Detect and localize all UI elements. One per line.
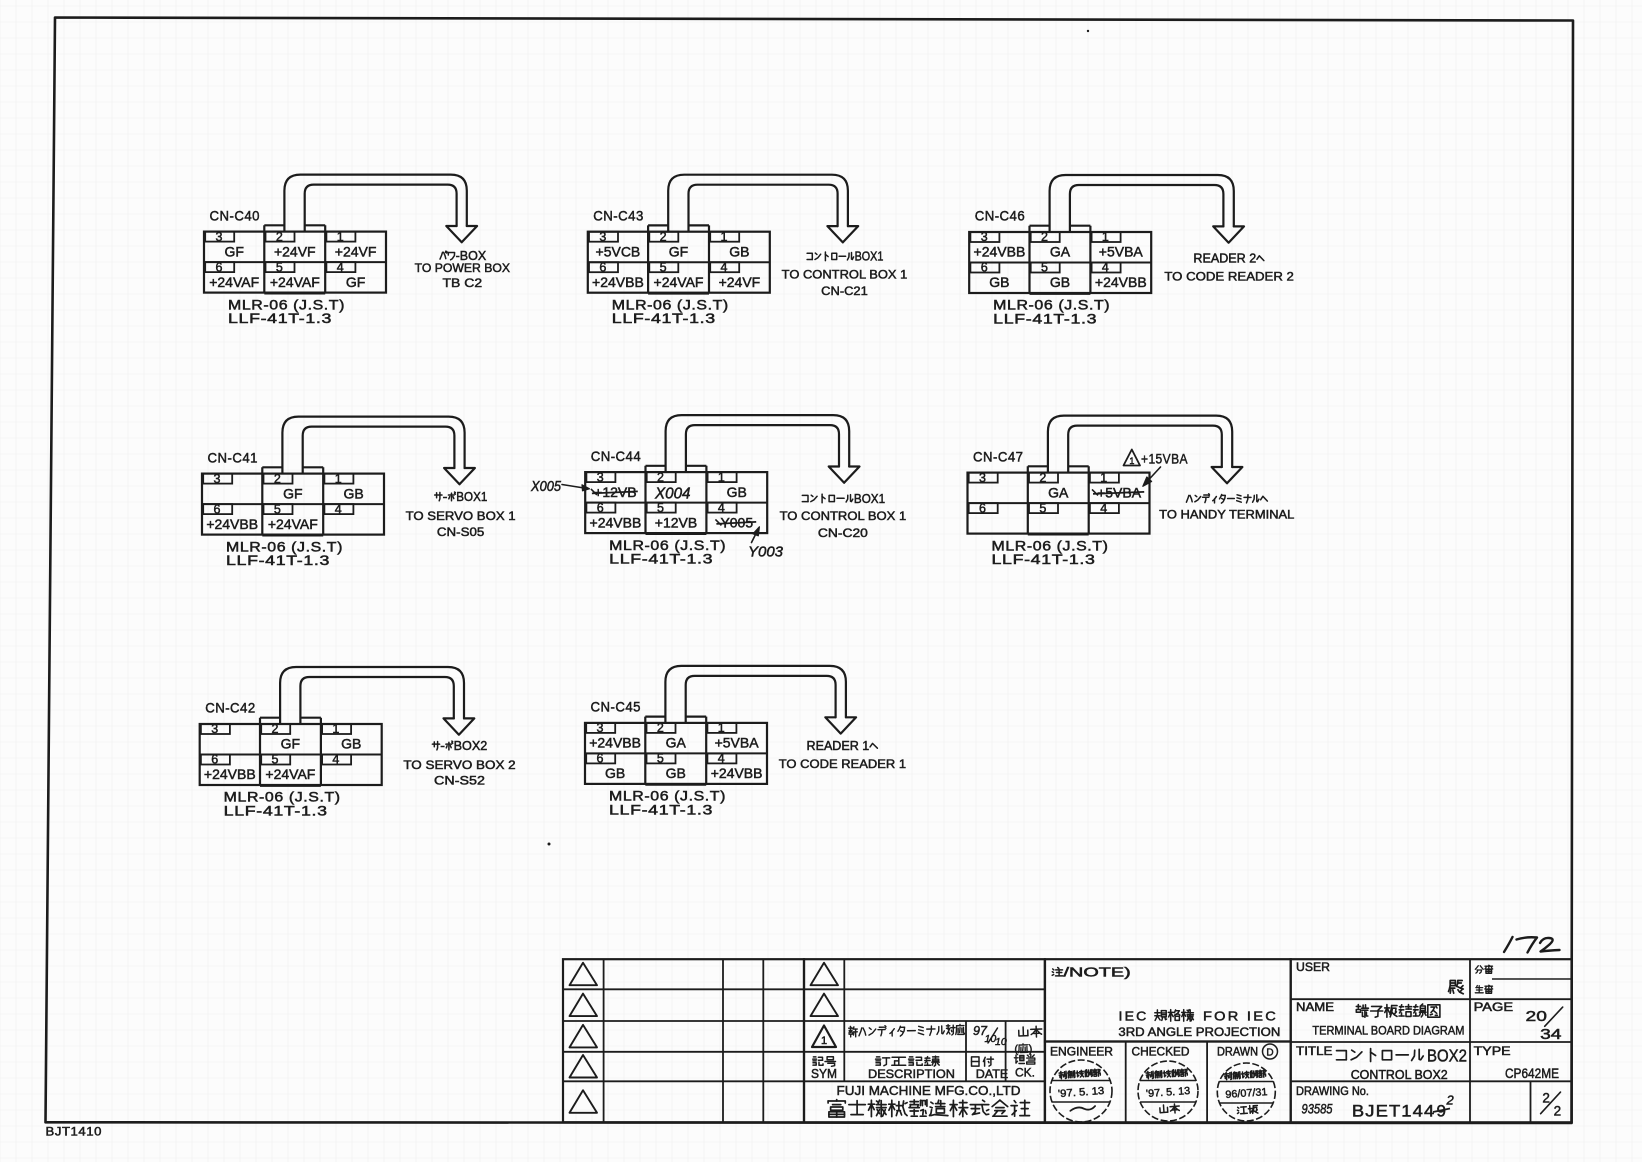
svg-text:LLF-41T-1.3: LLF-41T-1.3 <box>226 553 330 568</box>
wire cable band from CN-C44 to destination arrow <box>666 415 850 472</box>
svg-text:1: 1 <box>718 721 725 735</box>
svg-text:FOR IEC: FOR IEC <box>1203 1009 1278 1024</box>
pin 1 tab <box>324 474 353 484</box>
pin 1 tab <box>326 232 355 242</box>
svg-text:1: 1 <box>332 722 339 736</box>
pin 4 tab <box>708 503 737 513</box>
pin 6 tab <box>589 262 618 272</box>
pin 2 tab <box>266 232 295 242</box>
svg-text:BJT1410: BJT1410 <box>46 1127 103 1139</box>
svg-text:+5VBA: +5VBA <box>1099 244 1144 260</box>
svg-text:GB: GB <box>989 274 1009 290</box>
connector CN-C47 <box>968 416 1295 567</box>
svg-text:5: 5 <box>272 753 279 767</box>
svg-text:4: 4 <box>718 501 725 515</box>
svg-text:BOX1: BOX1 <box>456 490 487 504</box>
svg-text:CK.: CK. <box>1015 1066 1035 1080</box>
svg-text:BOX1: BOX1 <box>854 492 885 506</box>
svg-text:D: D <box>1266 1048 1273 1059</box>
svg-text:MLR-06 (J.S.T): MLR-06 (J.S.T) <box>993 298 1110 313</box>
pin 4 tab <box>322 755 351 765</box>
revision triangle symbol row 2 <box>570 994 598 1017</box>
svg-text:1: 1 <box>721 230 728 244</box>
svg-text:GF: GF <box>281 736 300 752</box>
svg-text:X004: X004 <box>654 486 691 503</box>
title block: revision record table (SYM/DESCRIPTION/DATE/CK) <box>804 959 1045 1122</box>
svg-text:CN-C40: CN-C40 <box>210 207 261 223</box>
svg-text:LLF-41T-1.3: LLF-41T-1.3 <box>993 312 1097 327</box>
svg-text:X005: X005 <box>530 479 562 495</box>
svg-text:3: 3 <box>216 230 223 244</box>
svg-text:GB: GB <box>605 765 625 781</box>
svg-text:1: 1 <box>1129 456 1134 466</box>
svg-text:LLF-41T-1.3: LLF-41T-1.3 <box>609 552 713 567</box>
DRAWN stamp 96/07/31 江坂 <box>1217 1063 1275 1121</box>
svg-text:TO CONTROL BOX 1: TO CONTROL BOX 1 <box>780 509 907 523</box>
svg-text:GB: GB <box>1050 274 1070 290</box>
pin 1 tab <box>710 232 739 242</box>
svg-text:CHECKED: CHECKED <box>1132 1047 1190 1059</box>
header 記号/SYM <box>813 1056 816 1058</box>
revision triangle symbol row 4 <box>570 1055 598 1078</box>
arrowhead pointing to destination <box>825 717 856 733</box>
company name 富士機械製造株式会社 <box>836 1100 838 1101</box>
svg-text:LLF-41T-1.3: LLF-41T-1.3 <box>992 552 1096 567</box>
handwritten page number 172 top right <box>1504 937 1513 952</box>
svg-text:GB: GB <box>343 485 363 501</box>
svg-text:2: 2 <box>1446 1093 1455 1108</box>
svg-text:6: 6 <box>599 260 606 274</box>
svg-text:NAME: NAME <box>1296 1002 1334 1014</box>
svg-text:CP642ME: CP642ME <box>1505 1066 1559 1081</box>
svg-text:3: 3 <box>979 471 986 485</box>
svg-text:34: 34 <box>1540 1027 1561 1043</box>
svg-text:+24VAF: +24VAF <box>270 274 320 290</box>
title block: approval row ENGINEER/CHECKED/DRAWN with stamps <box>1045 1042 1291 1123</box>
svg-text:-: - <box>440 739 445 753</box>
pin 3 tab <box>203 474 232 484</box>
pin 1 tab <box>707 723 736 733</box>
svg-text:2: 2 <box>657 721 664 735</box>
pin 3 tab <box>586 472 615 482</box>
svg-text:3: 3 <box>211 722 218 736</box>
pin 2 tab <box>1029 473 1058 483</box>
pin 3 tab <box>586 723 615 733</box>
svg-text:LLF-41T-1.3: LLF-41T-1.3 <box>609 802 713 817</box>
svg-text:5: 5 <box>1039 501 1046 515</box>
revision triangle symbol row 3 <box>570 1025 598 1048</box>
pin 1 tab <box>1090 473 1119 483</box>
pin 2 tab <box>649 232 678 242</box>
svg-text:2: 2 <box>660 230 667 244</box>
svg-text:CN-C45: CN-C45 <box>591 699 642 715</box>
svg-text:MLR-06 (J.S.T): MLR-06 (J.S.T) <box>609 538 726 553</box>
svg-text:GF: GF <box>283 485 302 501</box>
pin 6 tab <box>203 504 232 514</box>
wire cable band from CN-C43 to destination arrow <box>668 175 848 232</box>
svg-text:1: 1 <box>718 470 725 484</box>
svg-text:GB: GB <box>341 736 361 752</box>
arrowhead pointing to destination <box>444 718 475 734</box>
svg-text:TITLE: TITLE <box>1296 1046 1333 1058</box>
svg-text:2: 2 <box>274 472 281 486</box>
arrowhead pointing to destination <box>1213 226 1244 242</box>
svg-text:CN-C47: CN-C47 <box>973 448 1024 464</box>
pin 3 tab <box>205 232 234 242</box>
svg-text:+24VBB: +24VBB <box>590 514 642 530</box>
destination label for CN-C47 <box>1186 495 1189 502</box>
svg-text:DRAWN: DRAWN <box>1217 1047 1258 1059</box>
svg-text:5: 5 <box>657 501 664 515</box>
svg-text:6: 6 <box>979 501 986 515</box>
svg-text:5: 5 <box>660 260 667 274</box>
pin 6 tab <box>205 262 234 272</box>
pin 5 tab <box>1029 503 1058 513</box>
destination label for CN-C44 <box>802 495 808 501</box>
svg-text:+24VBB: +24VBB <box>974 244 1026 260</box>
handwritten annotation X004 in CN-C44 pin 2 cell <box>654 486 691 503</box>
svg-text:USER: USER <box>1296 962 1330 974</box>
pin 2 tab <box>264 474 293 484</box>
svg-text:6: 6 <box>597 752 604 766</box>
pin 5 tab <box>264 504 293 514</box>
svg-text:MLR-06 (J.S.T): MLR-06 (J.S.T) <box>609 789 726 804</box>
svg-text:TO CONTROL BOX 1: TO CONTROL BOX 1 <box>782 268 908 282</box>
svg-text:READER 2: READER 2 <box>1193 251 1256 265</box>
svg-text:4: 4 <box>332 753 339 767</box>
wire cable band from CN-C42 to destination arrow <box>280 667 464 724</box>
pin 4 tab <box>710 262 739 272</box>
connector CN-C42 <box>200 667 516 819</box>
svg-text:5: 5 <box>276 260 283 274</box>
svg-text:2: 2 <box>1554 1104 1562 1119</box>
svg-text:3: 3 <box>599 230 606 244</box>
wire cable band from CN-C46 to destination arrow <box>1050 175 1234 232</box>
revision triangle symbol (SYM column) row 2 <box>811 994 839 1017</box>
svg-text:+5VBA: +5VBA <box>715 735 760 751</box>
svg-text:6: 6 <box>597 501 604 515</box>
ENGINEER stamp 97.5.13 <box>1050 1060 1112 1122</box>
svg-text:TB C2: TB C2 <box>443 276 483 290</box>
title block: NOTE box <box>1045 959 1291 1041</box>
pin 6 tab <box>970 263 999 273</box>
pin 4 tab <box>707 753 736 763</box>
svg-text:PAGE: PAGE <box>1474 1002 1514 1014</box>
connector CN-C40 <box>204 175 510 327</box>
svg-text:MLR-06 (J.S.T): MLR-06 (J.S.T) <box>228 297 345 312</box>
svg-text:TO HANDY TERMINAL: TO HANDY TERMINAL <box>1159 508 1294 522</box>
connector CN-C43 <box>588 175 908 327</box>
connector CN-C41 <box>202 417 516 568</box>
pin 2 tab <box>1031 232 1060 242</box>
destination label for CN-C41 <box>435 494 442 496</box>
svg-text:+12VB: +12VB <box>655 514 697 530</box>
svg-text:GF: GF <box>346 274 365 290</box>
connector CN-C44 <box>585 415 906 566</box>
svg-text:1: 1 <box>337 230 344 244</box>
svg-text:2: 2 <box>1039 471 1046 485</box>
wire cable band from CN-C40 to destination arrow <box>284 175 466 232</box>
svg-text:CONTROL BOX2: CONTROL BOX2 <box>1351 1068 1448 1082</box>
svg-text:GB: GB <box>727 484 747 500</box>
分番 cell <box>1475 966 1478 970</box>
svg-text:GA: GA <box>1048 484 1069 500</box>
svg-text:2: 2 <box>276 230 283 244</box>
svg-text:GB: GB <box>729 243 749 259</box>
svg-text:1: 1 <box>821 1035 827 1047</box>
svg-text:6: 6 <box>214 502 221 516</box>
pin 5 tab <box>647 753 676 763</box>
destination label for CN-C43 <box>807 253 812 259</box>
revision triangle symbol row 1 <box>570 963 598 985</box>
svg-text:+24VF: +24VF <box>719 274 761 290</box>
pin 6 tab <box>586 753 615 763</box>
svg-text:5: 5 <box>657 752 664 766</box>
svg-text:+24VBB: +24VBB <box>592 274 644 290</box>
svg-text:CN-C44: CN-C44 <box>591 448 642 464</box>
handwritten revision description 新ハンディターミナル対応 <box>849 1024 965 1037</box>
connector CN-C45 <box>585 666 906 818</box>
svg-text:4: 4 <box>721 260 728 274</box>
pin 5 tab <box>261 755 290 765</box>
svg-text:6: 6 <box>981 261 988 275</box>
svg-text:1: 1 <box>335 472 342 486</box>
handwritten annotation X005 with arrow to CN-C44 pin 3 <box>530 479 589 495</box>
生番 cell <box>1475 986 1478 988</box>
header 担当/CK. <box>1015 1055 1017 1063</box>
wire cable band from CN-C41 to destination arrow <box>282 417 464 474</box>
svg-text:ENGINEER: ENGINEER <box>1050 1047 1113 1059</box>
svg-text:DESCRIPTION: DESCRIPTION <box>868 1067 955 1081</box>
pin 3 tab <box>589 232 618 242</box>
pin 6 tab <box>969 503 998 513</box>
svg-text:BOX2: BOX2 <box>1427 1045 1467 1065</box>
revision triangle symbol row 5 <box>570 1090 598 1113</box>
svg-text:+24VAF: +24VAF <box>209 274 259 290</box>
svg-text:BOX1: BOX1 <box>855 250 884 264</box>
svg-text:1: 1 <box>1100 471 1107 485</box>
pin 1 tab <box>322 724 351 734</box>
svg-text:+24VBB: +24VBB <box>204 766 256 782</box>
connector CN-C46 <box>969 175 1294 327</box>
pin 4 tab <box>324 504 353 514</box>
svg-text:LLF-41T-1.3: LLF-41T-1.3 <box>612 311 716 326</box>
pin 2 tab <box>647 723 676 733</box>
title block: left revision strip table <box>563 959 804 1122</box>
arrowhead pointing to destination <box>444 468 475 484</box>
handwritten annotation Y003 with arrow to CN-C44 pin 4 <box>748 527 784 561</box>
svg-text:TO SERVO BOX 1: TO SERVO BOX 1 <box>406 509 516 523</box>
svg-text:+24VBB: +24VBB <box>1095 274 1147 290</box>
svg-text:1: 1 <box>1102 230 1109 244</box>
pin 1 tab <box>708 472 737 482</box>
pin 3 tab <box>201 724 230 734</box>
svg-text:MLR-06 (J.S.T): MLR-06 (J.S.T) <box>226 539 343 554</box>
svg-text:+24VBB: +24VBB <box>711 765 763 781</box>
svg-text:4: 4 <box>1100 501 1107 515</box>
svg-text:TO SERVO BOX 2: TO SERVO BOX 2 <box>403 758 515 772</box>
svg-text:DRAWING No.: DRAWING No. <box>1296 1086 1369 1098</box>
pin 4 tab <box>1090 503 1119 513</box>
pin 2 tab <box>647 472 676 482</box>
svg-text:93585: 93585 <box>1302 1102 1333 1117</box>
pin 6 tab <box>201 755 230 765</box>
svg-text:-: - <box>443 490 448 504</box>
svg-text:CN-C20: CN-C20 <box>818 526 868 540</box>
pin 5 tab <box>266 262 295 272</box>
svg-text:IEC: IEC <box>1119 1009 1149 1024</box>
handwritten revision CK 山本(応) <box>1014 1026 1043 1056</box>
arrowhead pointing to destination <box>446 226 477 242</box>
svg-text:4: 4 <box>337 260 344 274</box>
svg-text:4: 4 <box>718 752 725 766</box>
revision triangle 1 and +15VBA annotation with arrow to CN-C47 pin 1 <box>1124 450 1189 487</box>
svg-text:+24VBB: +24VBB <box>589 735 641 751</box>
header 日付/DATE <box>972 1057 980 1066</box>
svg-text:3: 3 <box>597 721 604 735</box>
svg-text:CN-C21: CN-C21 <box>821 284 868 298</box>
svg-text:CN-C46: CN-C46 <box>975 208 1025 224</box>
svg-text:GF: GF <box>224 243 243 259</box>
svg-text:5: 5 <box>274 502 281 516</box>
arrowhead pointing to destination <box>829 467 860 483</box>
svg-text:SYM: SYM <box>811 1067 837 1081</box>
title block: right info column <box>1291 959 1572 1122</box>
svg-text:/NOTE): /NOTE) <box>1064 966 1131 980</box>
svg-text:CN-C43: CN-C43 <box>593 207 644 223</box>
pin 5 tab <box>649 262 678 272</box>
pin 4 tab <box>1092 263 1121 273</box>
svg-text:Y003: Y003 <box>748 544 784 561</box>
svg-text:3: 3 <box>214 472 221 486</box>
svg-text:4: 4 <box>335 502 342 516</box>
svg-text:5: 5 <box>1041 261 1048 275</box>
svg-text:DATE: DATE <box>976 1067 1009 1081</box>
svg-text:+5VCB: +5VCB <box>596 243 641 259</box>
svg-text:LLF-41T-1.3: LLF-41T-1.3 <box>224 804 328 819</box>
revision triangle 1 (SYM column) <box>812 1026 836 1048</box>
svg-text:+24VAF: +24VAF <box>268 516 318 532</box>
svg-text:BOX2: BOX2 <box>454 739 488 753</box>
svg-text:+15VBA: +15VBA <box>1141 451 1188 467</box>
wire cable band from CN-C45 to destination arrow <box>665 666 846 723</box>
CHECKED stamp 97.5.13 山本 <box>1138 1061 1198 1121</box>
svg-text:2: 2 <box>272 722 279 736</box>
svg-text:LLF-41T-1.3: LLF-41T-1.3 <box>228 311 332 326</box>
svg-text:6: 6 <box>216 260 223 274</box>
svg-text:MLR-06 (J.S.T): MLR-06 (J.S.T) <box>224 790 341 805</box>
svg-text:3: 3 <box>981 230 988 244</box>
svg-text:+24VF: +24VF <box>335 243 377 259</box>
svg-text:GA: GA <box>1050 244 1071 260</box>
destination label for CN-C42 <box>432 743 439 745</box>
svg-text:TO CODE READER 2: TO CODE READER 2 <box>1164 270 1294 284</box>
svg-text:+24VAF: +24VAF <box>654 274 704 290</box>
pin 5 tab <box>647 503 676 513</box>
pin 4 tab <box>326 262 355 272</box>
svg-text:2: 2 <box>1041 230 1048 244</box>
svg-text:2: 2 <box>657 470 664 484</box>
pin 2 tab <box>261 724 290 734</box>
pin 1 tab <box>1092 232 1121 242</box>
svg-text:CN-C42: CN-C42 <box>205 700 256 716</box>
pin 5 tab <box>1031 263 1060 273</box>
svg-text:BJET144: BJET144 <box>1352 1102 1435 1121</box>
wire cable band from CN-C47 to destination arrow <box>1048 416 1232 473</box>
svg-text:3RD ANGLE PROJECTION: 3RD ANGLE PROJECTION <box>1118 1025 1280 1039</box>
arrowhead pointing to destination <box>1212 467 1243 483</box>
header 訂正記録/DESCRIPTION <box>877 1056 880 1058</box>
svg-text:): ) <box>1028 1043 1032 1055</box>
svg-text:READER 1: READER 1 <box>807 739 870 753</box>
svg-text:GA: GA <box>666 735 687 751</box>
svg-text:20: 20 <box>1526 1009 1547 1025</box>
svg-text:4: 4 <box>1102 261 1109 275</box>
svg-text:+24VF: +24VF <box>274 243 316 259</box>
svg-text:GF: GF <box>669 243 688 259</box>
svg-text:TO CODE READER 1: TO CODE READER 1 <box>779 757 906 771</box>
revision triangle symbol (SYM column) row 1 <box>811 963 839 985</box>
svg-text:+24VAF: +24VAF <box>265 766 315 782</box>
svg-text:TYPE: TYPE <box>1474 1046 1511 1058</box>
pin 6 tab <box>586 503 615 513</box>
svg-text:MLR-06 (J.S.T): MLR-06 (J.S.T) <box>992 538 1109 553</box>
svg-text:FUJI MACHINE MFG.CO.,LTD: FUJI MACHINE MFG.CO.,LTD <box>837 1083 1021 1098</box>
svg-text:MLR-06 (J.S.T): MLR-06 (J.S.T) <box>612 297 729 312</box>
svg-text:CN-S05: CN-S05 <box>437 525 485 539</box>
pin 3 tab <box>970 232 999 242</box>
arrowhead pointing to destination <box>827 226 858 242</box>
svg-text:2: 2 <box>1542 1091 1550 1106</box>
destination label for CN-C40 <box>440 252 443 259</box>
svg-text:10: 10 <box>995 1036 1007 1048</box>
svg-text:+24VBB: +24VBB <box>206 516 258 532</box>
svg-text:CN-C41: CN-C41 <box>208 449 259 465</box>
svg-text:3: 3 <box>597 470 604 484</box>
svg-text:TO POWER BOX: TO POWER BOX <box>415 261 510 275</box>
svg-text:TERMINAL BOARD DIAGRAM: TERMINAL BOARD DIAGRAM <box>1312 1023 1464 1037</box>
svg-text:6: 6 <box>211 753 218 767</box>
svg-text:GB: GB <box>666 765 686 781</box>
pin 3 tab <box>969 473 998 483</box>
svg-text:CN-S52: CN-S52 <box>434 774 485 788</box>
